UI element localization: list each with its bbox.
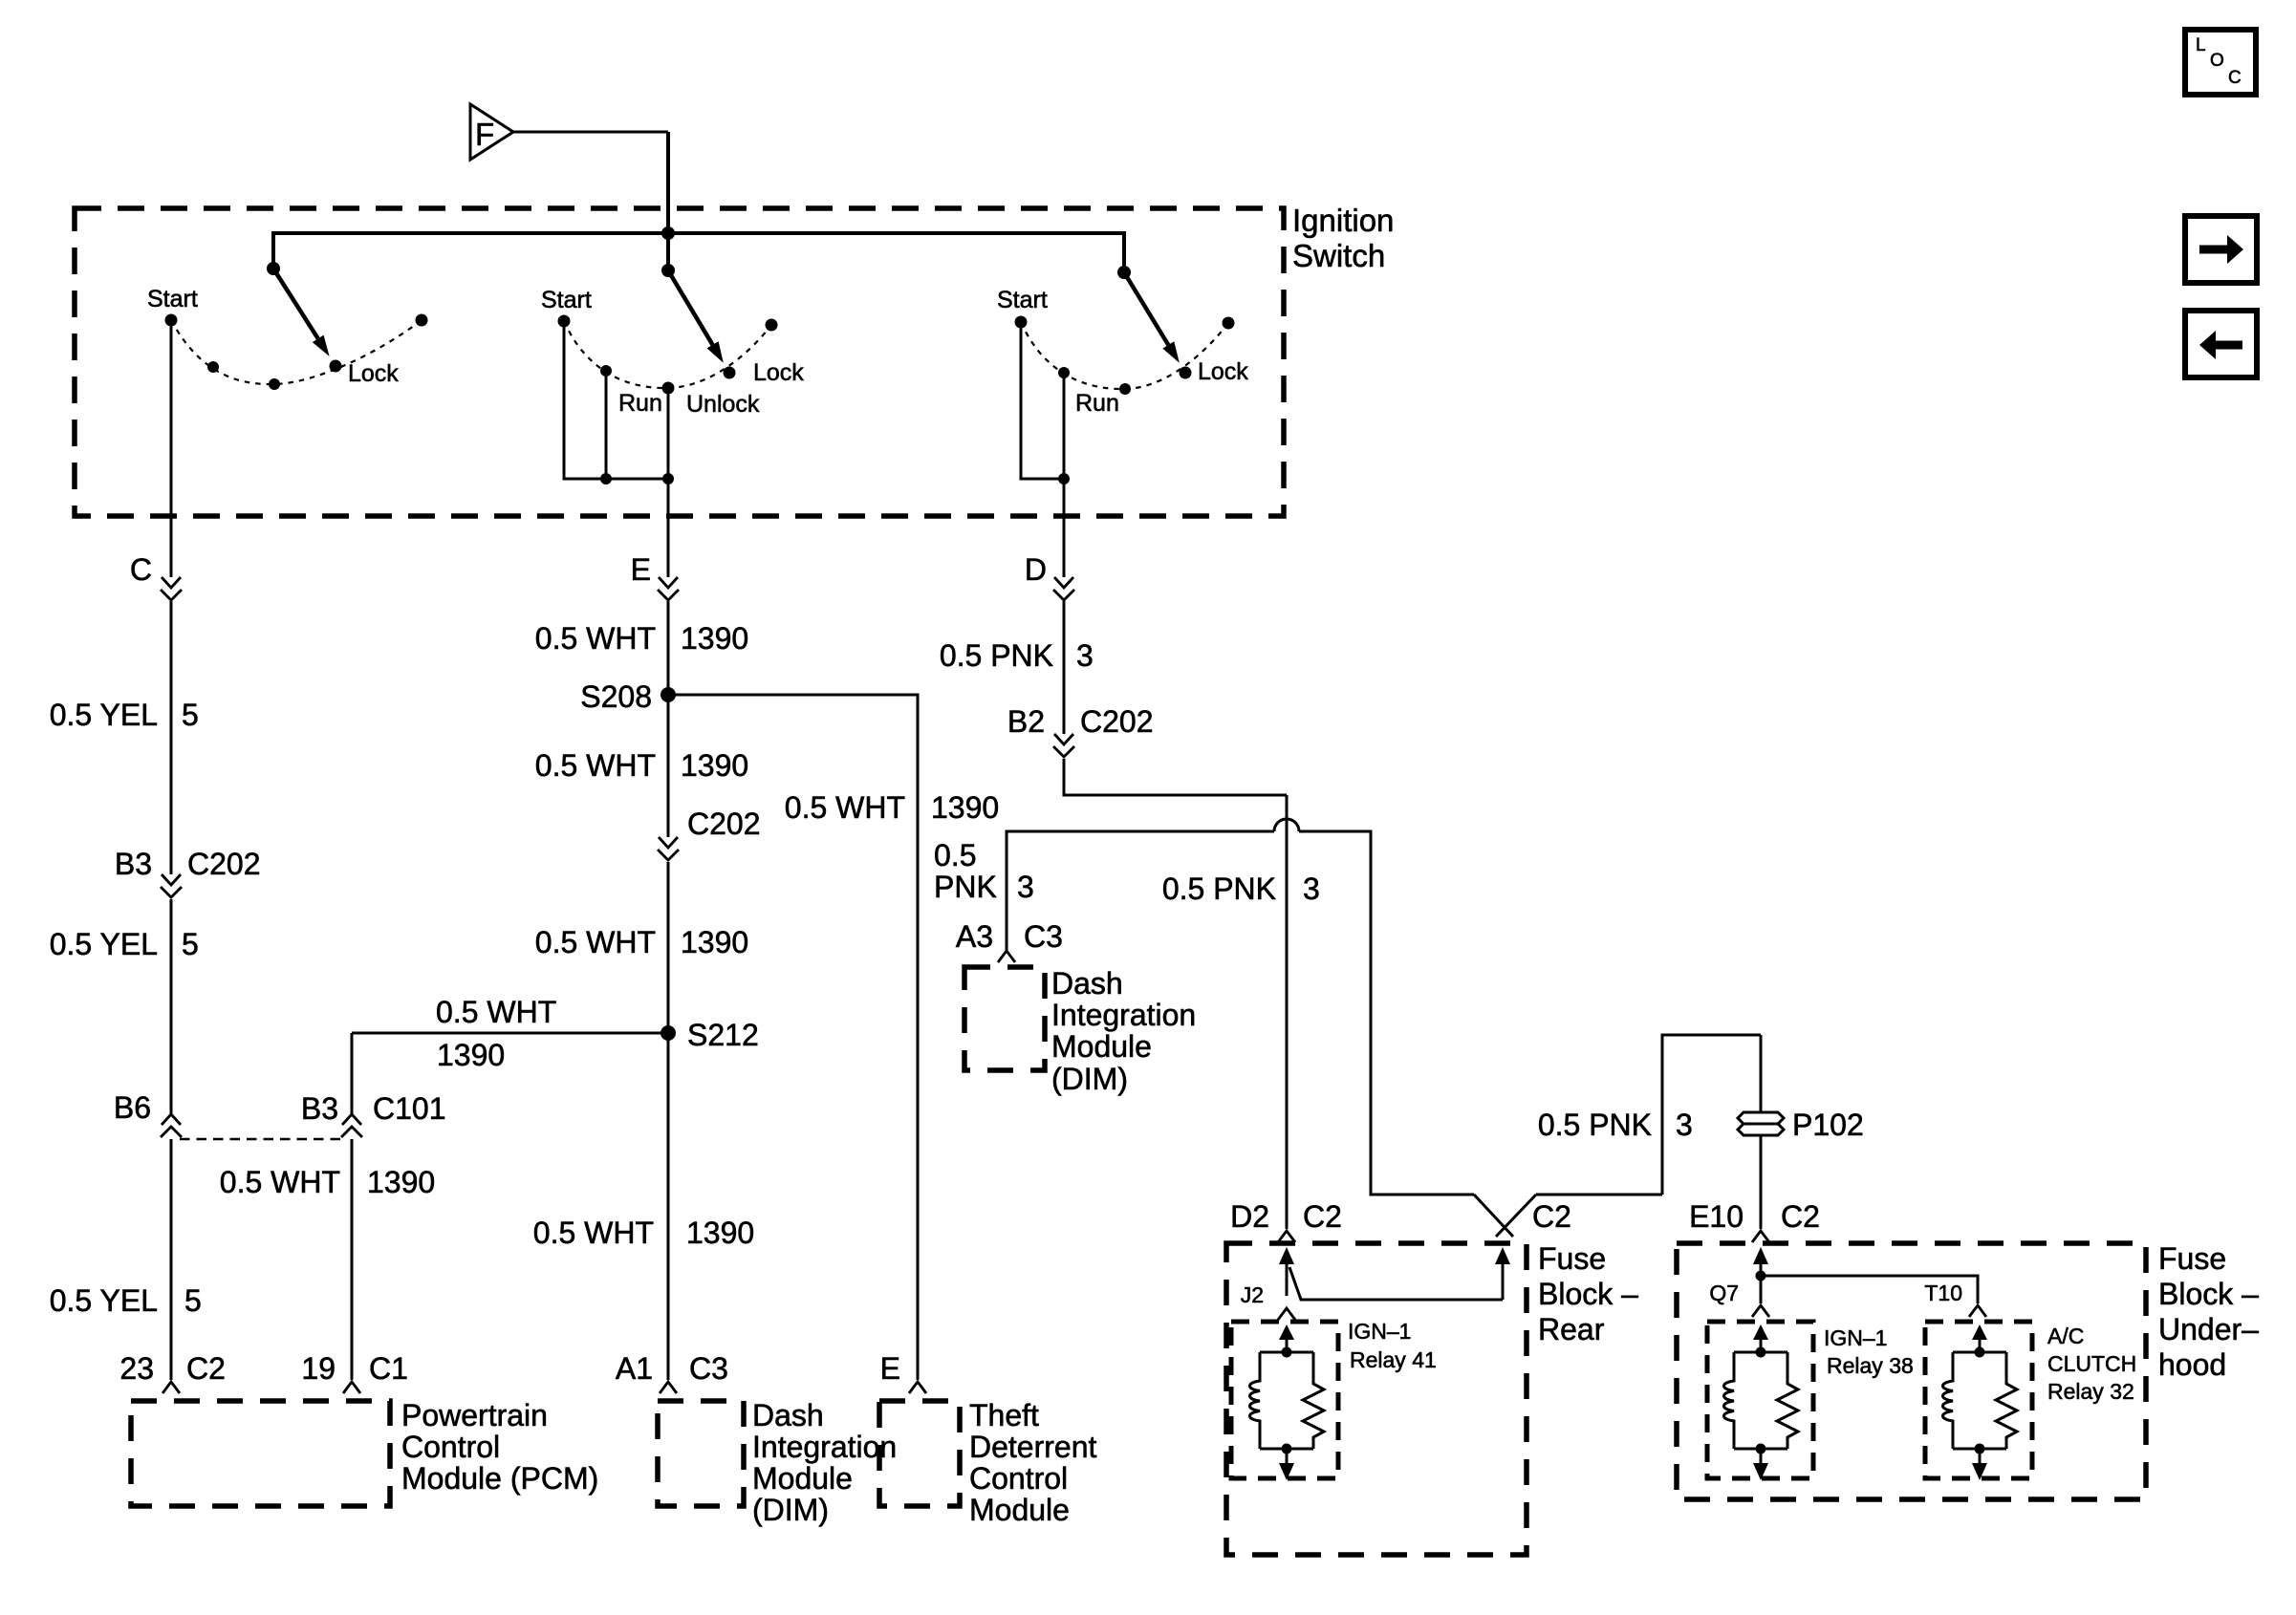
svg-text:Lock: Lock (1198, 358, 1248, 385)
svg-text:0.5 WHT: 0.5 WHT (535, 925, 656, 959)
svg-text:PNK: PNK (934, 870, 997, 904)
svg-text:S212: S212 (687, 1018, 759, 1052)
svg-text:B2: B2 (1007, 704, 1045, 739)
svg-text:23: 23 (119, 1351, 154, 1386)
svg-text:C202: C202 (687, 807, 761, 841)
svg-text:Control: Control (401, 1430, 500, 1464)
svg-text:0.5 PNK: 0.5 PNK (940, 638, 1053, 673)
svg-text:0.5 WHT: 0.5 WHT (535, 748, 656, 783)
svg-text:Integration: Integration (1051, 998, 1196, 1032)
svg-text:Run: Run (1075, 390, 1119, 417)
svg-text:C202: C202 (187, 847, 261, 881)
svg-text:Rear: Rear (1538, 1312, 1605, 1346)
svg-text:E: E (880, 1351, 900, 1386)
svg-text:D: D (1025, 552, 1047, 587)
svg-text:S208: S208 (580, 679, 652, 714)
svg-text:0.5 YEL: 0.5 YEL (50, 698, 158, 732)
svg-text:Dash: Dash (1051, 966, 1123, 1001)
svg-text:Module: Module (1051, 1029, 1152, 1064)
svg-text:C: C (130, 552, 152, 587)
svg-text:0.5 WHT: 0.5 WHT (535, 621, 656, 656)
svg-text:Module (PCM): Module (PCM) (401, 1461, 598, 1496)
svg-text:1390: 1390 (931, 790, 999, 825)
svg-text:D2: D2 (1230, 1199, 1269, 1234)
svg-text:Fuse: Fuse (1538, 1241, 1606, 1276)
svg-text:Run: Run (618, 390, 662, 417)
svg-text:Deterrent: Deterrent (969, 1430, 1097, 1464)
svg-text:Ignition: Ignition (1292, 203, 1394, 238)
svg-text:C: C (2228, 68, 2242, 88)
svg-text:A3: A3 (956, 919, 993, 954)
svg-text:B3: B3 (115, 847, 152, 881)
svg-text:Start: Start (541, 287, 592, 313)
svg-text:Block –: Block – (1538, 1277, 1638, 1311)
svg-text:3: 3 (1303, 872, 1320, 906)
svg-text:0.5: 0.5 (934, 838, 976, 872)
svg-text:0.5 YEL: 0.5 YEL (50, 927, 158, 961)
svg-text:3: 3 (1676, 1108, 1693, 1142)
svg-text:0.5 WHT: 0.5 WHT (533, 1216, 654, 1250)
svg-text:1390: 1390 (367, 1165, 435, 1199)
svg-text:IGN–1: IGN–1 (1348, 1319, 1411, 1344)
svg-text:C2: C2 (1781, 1199, 1820, 1234)
svg-text:C2: C2 (186, 1351, 226, 1386)
svg-text:1390: 1390 (681, 621, 748, 656)
svg-text:Switch: Switch (1292, 238, 1385, 273)
svg-text:5: 5 (182, 927, 199, 961)
svg-text:3: 3 (1076, 638, 1094, 673)
svg-text:C2: C2 (1532, 1199, 1571, 1234)
svg-text:T10: T10 (1924, 1281, 1962, 1305)
svg-text:C1: C1 (369, 1351, 408, 1386)
svg-text:Dash: Dash (752, 1398, 824, 1432)
svg-text:Relay 32: Relay 32 (2047, 1379, 2134, 1404)
svg-text:(DIM): (DIM) (752, 1493, 829, 1527)
svg-text:Q7: Q7 (1709, 1281, 1739, 1305)
svg-text:E10: E10 (1689, 1199, 1744, 1234)
svg-text:Module: Module (752, 1461, 853, 1496)
svg-text:5: 5 (182, 698, 199, 732)
svg-text:C202: C202 (1080, 704, 1154, 739)
svg-text:1390: 1390 (686, 1216, 754, 1250)
svg-text:B6: B6 (114, 1090, 151, 1125)
svg-text:0.5 WHT: 0.5 WHT (220, 1165, 340, 1199)
svg-text:B3: B3 (301, 1091, 338, 1126)
svg-text:L: L (2196, 35, 2206, 55)
svg-text:P102: P102 (1792, 1108, 1864, 1142)
svg-text:J2: J2 (1241, 1282, 1264, 1307)
svg-text:0.5 PNK: 0.5 PNK (1538, 1108, 1652, 1142)
svg-text:C2: C2 (1303, 1199, 1342, 1234)
svg-text:1390: 1390 (681, 925, 748, 959)
svg-text:Under–: Under– (2158, 1312, 2259, 1346)
svg-text:Relay 41: Relay 41 (1350, 1347, 1437, 1372)
svg-text:hood: hood (2158, 1347, 2226, 1382)
svg-text:0.5 WHT: 0.5 WHT (436, 995, 556, 1029)
svg-text:1390: 1390 (437, 1038, 505, 1072)
svg-text:Integration: Integration (752, 1430, 897, 1464)
svg-text:0.5 PNK: 0.5 PNK (1162, 872, 1276, 906)
svg-text:Module: Module (969, 1493, 1070, 1527)
svg-text:CLUTCH: CLUTCH (2047, 1351, 2136, 1376)
svg-text:C101: C101 (373, 1091, 446, 1126)
svg-text:0.5 WHT: 0.5 WHT (785, 790, 905, 825)
svg-text:0.5 YEL: 0.5 YEL (50, 1283, 158, 1318)
svg-text:A/C: A/C (2047, 1324, 2084, 1348)
svg-text:Start: Start (147, 286, 198, 312)
svg-text:C3: C3 (1024, 919, 1063, 954)
svg-text:IGN–1: IGN–1 (1824, 1325, 1887, 1350)
svg-text:Fuse: Fuse (2158, 1241, 2226, 1276)
svg-text:O: O (2210, 51, 2224, 71)
svg-text:Block –: Block – (2158, 1277, 2259, 1311)
svg-text:A1: A1 (616, 1351, 653, 1386)
svg-text:Lock: Lock (753, 359, 804, 386)
svg-text:F: F (475, 117, 494, 152)
svg-text:1390: 1390 (681, 748, 748, 783)
svg-text:Powertrain: Powertrain (401, 1398, 548, 1432)
svg-text:Control: Control (969, 1461, 1068, 1496)
svg-text:E: E (631, 552, 651, 587)
svg-text:Unlock: Unlock (686, 391, 760, 418)
svg-text:(DIM): (DIM) (1051, 1062, 1128, 1096)
svg-text:Theft: Theft (969, 1398, 1039, 1432)
svg-text:C3: C3 (689, 1351, 728, 1386)
svg-text:19: 19 (301, 1351, 336, 1386)
svg-text:5: 5 (184, 1283, 202, 1318)
svg-text:Relay 38: Relay 38 (1827, 1353, 1914, 1378)
svg-text:Start: Start (997, 287, 1048, 313)
svg-text:Lock: Lock (348, 360, 399, 387)
svg-text:3: 3 (1017, 870, 1034, 904)
